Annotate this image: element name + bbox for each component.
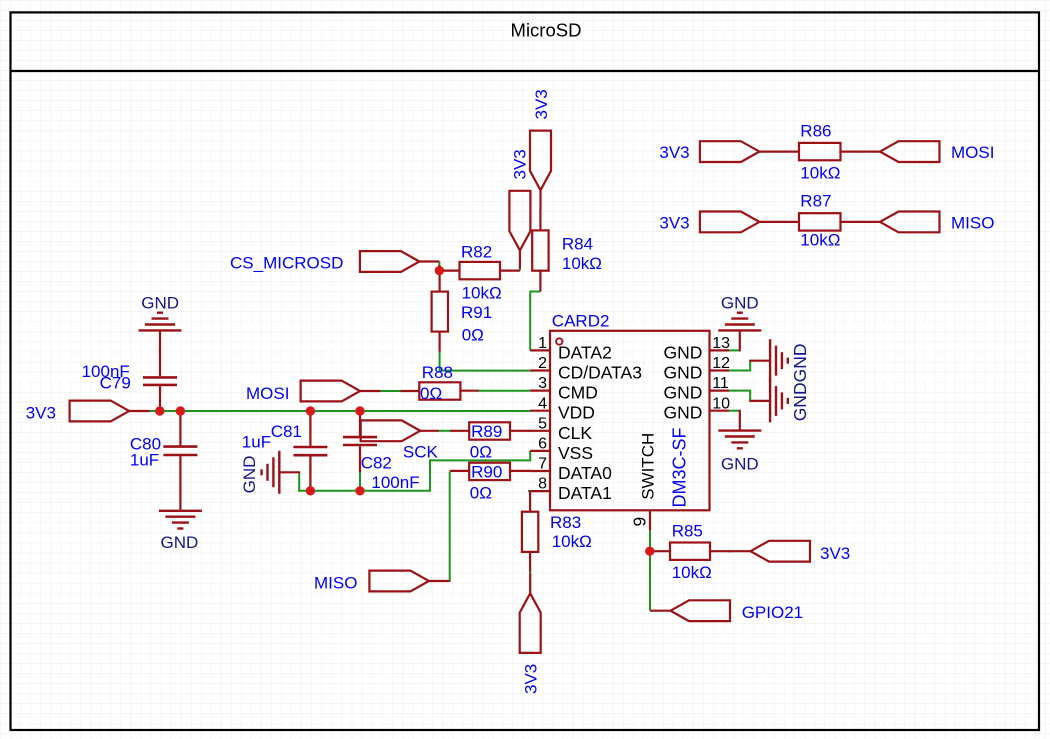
pin of 3V3 row2 port <box>759 221 779 223</box>
pin 4 stub <box>530 410 550 412</box>
svg-text:SWITCH: SWITCH <box>638 433 657 500</box>
resistor R89 pins <box>450 430 469 432</box>
pin of MOSI row1 port <box>860 151 880 153</box>
svg-text:CARD2: CARD2 <box>552 312 610 331</box>
resistor R87 pins <box>779 221 799 223</box>
junction dot C79 rail <box>155 406 164 415</box>
svg-text:10kΩ: 10kΩ <box>462 283 502 302</box>
wire stub R89 to pin5 <box>528 430 532 432</box>
capacitor C79 plates <box>143 376 177 379</box>
wire pin11 to rotated ground <box>729 391 750 401</box>
svg-text:4: 4 <box>538 395 547 412</box>
svg-text:R90: R90 <box>471 462 502 481</box>
resistor R85 pins <box>650 550 670 552</box>
resistor R86 body <box>799 143 841 160</box>
resistor R91 body <box>432 292 448 332</box>
power flag 3V3 lower-left <box>509 191 530 251</box>
capacitor C82 plates <box>343 436 377 439</box>
svg-text:10kΩ: 10kΩ <box>800 164 840 183</box>
port 3V3 row2 flag <box>700 212 760 233</box>
svg-text:GND: GND <box>664 363 703 383</box>
ground symbol G7 rotated at pin11 <box>770 379 788 422</box>
resistor R86 pins <box>779 151 799 153</box>
svg-text:0Ω: 0Ω <box>420 384 442 403</box>
svg-text:6: 6 <box>538 436 547 453</box>
port MOSI row1 flag (left-pointing) <box>880 141 940 162</box>
capacitor C79 bottom lead <box>159 386 161 411</box>
svg-text:5: 5 <box>538 415 547 432</box>
ground symbol G4 below pin10 <box>718 431 761 449</box>
wire stub R84 top junction <box>539 209 541 213</box>
svg-text:GND: GND <box>141 293 179 312</box>
svg-text:R91: R91 <box>461 303 492 322</box>
capacitor C81 top lead <box>309 411 311 446</box>
svg-text:MOSI: MOSI <box>951 143 994 162</box>
svg-text:MOSI: MOSI <box>246 384 289 403</box>
svg-text:R84: R84 <box>562 235 593 254</box>
pin 12 stub <box>710 369 730 371</box>
svg-text:C79: C79 <box>100 373 131 392</box>
title separator line <box>11 70 1040 72</box>
svg-text:C82: C82 <box>361 453 392 472</box>
capacitor C80 plates <box>163 445 197 448</box>
pin 10 stub <box>710 410 730 412</box>
svg-text:DM3C-SF: DM3C-SF <box>669 427 689 507</box>
pin of 3V3 R85 port <box>730 550 750 552</box>
port 3V3 left flag <box>70 401 130 422</box>
svg-text:MicroSD: MicroSD <box>511 20 582 41</box>
wire stub R87 left <box>777 221 782 223</box>
svg-text:13: 13 <box>712 335 730 352</box>
wire stub R86 left <box>777 151 782 153</box>
port MISO row2 flag (left-pointing) <box>880 212 940 233</box>
svg-text:MISO: MISO <box>951 214 994 233</box>
svg-text:C81: C81 <box>271 422 302 441</box>
IC CARD2 box <box>550 331 710 511</box>
ground G4 lead <box>739 410 741 431</box>
port MOSI mid-left flag <box>301 381 361 402</box>
svg-text:GND: GND <box>161 533 199 552</box>
wire VSS pin6 to ground bus <box>299 451 530 491</box>
pin 13 stub <box>710 349 730 351</box>
svg-text:3V3: 3V3 <box>820 544 850 563</box>
svg-text:GND: GND <box>664 342 703 362</box>
svg-text:3V3: 3V3 <box>532 89 551 119</box>
pin of GPIO21 port <box>650 610 670 612</box>
wire stub pin8 corner <box>528 490 532 492</box>
svg-text:3V3: 3V3 <box>659 214 689 233</box>
svg-text:0Ω: 0Ω <box>470 443 492 462</box>
ground G7 lead <box>749 400 770 402</box>
wire R91 to pin2 <box>440 352 531 371</box>
resistor R84 body <box>532 230 548 270</box>
ground symbol G3 above pin13 <box>718 313 761 331</box>
wire pin9 to GPIO21 <box>650 610 652 612</box>
pin of MOSI port <box>360 390 380 392</box>
power flag 3V3 bottom (up-pointing) <box>520 593 541 653</box>
svg-text:GND: GND <box>240 456 259 494</box>
svg-text:R89: R89 <box>471 422 502 441</box>
ground symbol G1 above C79 <box>139 313 182 331</box>
wire MISO vertical to R90 <box>448 472 450 581</box>
wire G5 ground stub down <box>298 472 300 492</box>
pin 1 stub <box>530 349 550 351</box>
resistor R82 body <box>460 262 501 279</box>
svg-text:CMD: CMD <box>558 383 598 403</box>
pin of MISO row2 port <box>860 221 880 223</box>
pin of 3V3 left port <box>129 410 149 412</box>
svg-text:CS_MICROSD: CS_MICROSD <box>230 253 343 272</box>
svg-text:R88: R88 <box>422 363 453 382</box>
wire SCK port to R89 <box>438 430 452 432</box>
svg-text:VDD: VDD <box>558 403 595 423</box>
wire CS corner down <box>438 265 440 272</box>
wire stub C80 lead <box>179 487 181 491</box>
svg-text:DATA0: DATA0 <box>558 463 612 483</box>
pin of 3V3 upper flag <box>539 190 541 210</box>
svg-text:8: 8 <box>538 476 547 493</box>
pin 7 stub <box>530 470 550 472</box>
pin 2 stub <box>530 369 550 371</box>
ground G6 lead <box>749 360 770 362</box>
wire pin9 SWITCH vertical <box>649 530 651 610</box>
svg-text:R83: R83 <box>550 513 581 532</box>
svg-text:R87: R87 <box>800 192 831 211</box>
svg-text:1uF: 1uF <box>130 450 159 469</box>
svg-text:9: 9 <box>630 517 650 527</box>
pin of 3V3 lower flag <box>519 250 521 268</box>
svg-text:GPIO21: GPIO21 <box>742 603 803 622</box>
wire pin12 to rotated ground <box>729 361 750 371</box>
port SCK flag <box>361 420 421 441</box>
wire stub 3V3 flag left junction <box>519 268 521 271</box>
capacitor C81 plates <box>293 446 327 449</box>
resistor R89 body <box>469 422 510 439</box>
pin of MISO port <box>429 580 450 582</box>
resistor R87 body <box>799 213 841 230</box>
wire 3V3 rail <box>149 410 531 412</box>
ground symbol G6 rotated at pin12 <box>770 339 788 382</box>
port GPIO21 flag (left-pointing) <box>671 600 731 621</box>
capacitor C81 bottom lead <box>309 456 311 491</box>
wire pin10 to ground <box>729 410 740 412</box>
wire C82 bottom lead <box>359 471 361 490</box>
resistor R91 pins <box>439 271 441 292</box>
svg-text:GND: GND <box>664 403 703 423</box>
resistor R84 pins <box>539 210 541 230</box>
pin 6 stub <box>530 450 550 452</box>
svg-text:DATA1: DATA1 <box>558 483 612 503</box>
wire stub R85 to 3V3 flag <box>728 550 733 552</box>
resistor R90 body <box>469 463 510 480</box>
svg-text:0Ω: 0Ω <box>470 484 492 503</box>
wire stub R86 right <box>858 151 863 153</box>
svg-text:1uF: 1uF <box>242 433 271 452</box>
capacitor C82 bottom lead <box>359 446 361 472</box>
junction dot pin9 net <box>645 547 654 556</box>
wire stub R83 bottom to 3V3 flag <box>529 570 531 574</box>
junction dot C81 ground bus <box>306 486 315 495</box>
svg-text:3V3: 3V3 <box>26 403 56 422</box>
ground symbol G2 below C80 <box>159 511 202 529</box>
resistor R90 pins <box>450 470 470 472</box>
ground G3 lead <box>739 330 741 351</box>
wire R88 to pin3 CMD <box>478 390 531 392</box>
resistor R83 body <box>522 512 538 552</box>
svg-text:1: 1 <box>538 335 547 352</box>
junction dot C82 ground bus <box>355 486 364 495</box>
svg-text:R85: R85 <box>672 522 703 541</box>
pin 11 stub <box>710 390 730 392</box>
wire stub R90 to pin7 <box>528 470 532 472</box>
svg-text:0Ω: 0Ω <box>462 325 484 344</box>
pin 9 stub <box>649 510 651 530</box>
power flag 3V3 upper-right (tall) <box>530 131 551 191</box>
pin 1 marker circle <box>556 338 562 344</box>
port 3V3 right of R85 (left-pointing) <box>751 541 811 562</box>
port 3V3 row1 flag <box>700 141 760 162</box>
port CS_MICROSD flag <box>360 251 420 272</box>
svg-text:R82: R82 <box>461 242 492 261</box>
svg-text:7: 7 <box>538 456 547 473</box>
pin 8 stub <box>530 490 550 492</box>
wire pin13 to ground <box>729 349 740 351</box>
svg-text:10: 10 <box>712 395 730 412</box>
svg-text:MISO: MISO <box>314 573 357 592</box>
junction dot C81 rail <box>306 406 315 415</box>
wire MOSI port to R88 <box>380 390 402 392</box>
svg-text:3: 3 <box>538 375 547 392</box>
port MISO bottom flag <box>369 571 429 592</box>
junction dot C82 rail <box>355 406 364 415</box>
resistor R88 pins <box>401 390 420 392</box>
resistor R88 body <box>419 382 460 399</box>
junction dot C80 rail <box>176 406 185 415</box>
svg-text:10kΩ: 10kΩ <box>562 254 602 273</box>
pin of CS_MICROSD port <box>419 260 439 262</box>
svg-text:DATA2: DATA2 <box>558 342 612 362</box>
pin of 3V3 row1 port <box>759 151 779 153</box>
resistor R85 body <box>670 543 710 560</box>
ground symbol G5 left-rotated near C81 <box>262 451 280 494</box>
pin 5 stub <box>530 430 550 432</box>
svg-text:GND: GND <box>721 454 759 473</box>
svg-text:3V3: 3V3 <box>521 664 540 694</box>
ground G5 lead <box>279 471 300 473</box>
svg-text:SCK: SCK <box>403 443 439 462</box>
wire stub R87 right <box>858 221 863 223</box>
wire stub C79 junction <box>159 349 161 353</box>
svg-text:11: 11 <box>712 375 729 392</box>
svg-text:100nF: 100nF <box>371 473 419 492</box>
wire stub CS corner <box>438 262 440 267</box>
svg-text:12: 12 <box>712 355 730 372</box>
svg-text:GNDGND: GNDGND <box>790 344 810 422</box>
capacitor C80 bottom lead <box>179 456 181 511</box>
junction dot CS node <box>435 266 444 275</box>
svg-text:CD/DATA3: CD/DATA3 <box>558 363 642 383</box>
capacitor C82 top lead <box>359 411 361 436</box>
pin of SCK port <box>420 430 438 432</box>
pin 3 stub <box>530 390 550 392</box>
svg-text:10kΩ: 10kΩ <box>800 231 840 250</box>
pin of 3V3 bottom flag <box>529 573 531 593</box>
wire R84 to pin1 DATA2 <box>530 292 540 351</box>
capacitor C79 top lead <box>159 330 161 376</box>
capacitor C80 top lead <box>179 411 181 446</box>
svg-text:3V3: 3V3 <box>659 143 689 162</box>
svg-text:CLK: CLK <box>558 423 592 443</box>
svg-text:3V3: 3V3 <box>511 149 530 179</box>
resistor R82 pins <box>439 270 459 272</box>
svg-text:R86: R86 <box>800 121 831 140</box>
resistor R83 pins <box>529 491 531 512</box>
svg-text:2: 2 <box>538 355 547 372</box>
svg-text:10kΩ: 10kΩ <box>552 532 592 551</box>
svg-text:GND: GND <box>721 293 759 312</box>
svg-text:GND: GND <box>664 383 703 403</box>
svg-text:10kΩ: 10kΩ <box>672 563 712 582</box>
svg-text:VSS: VSS <box>558 443 593 463</box>
